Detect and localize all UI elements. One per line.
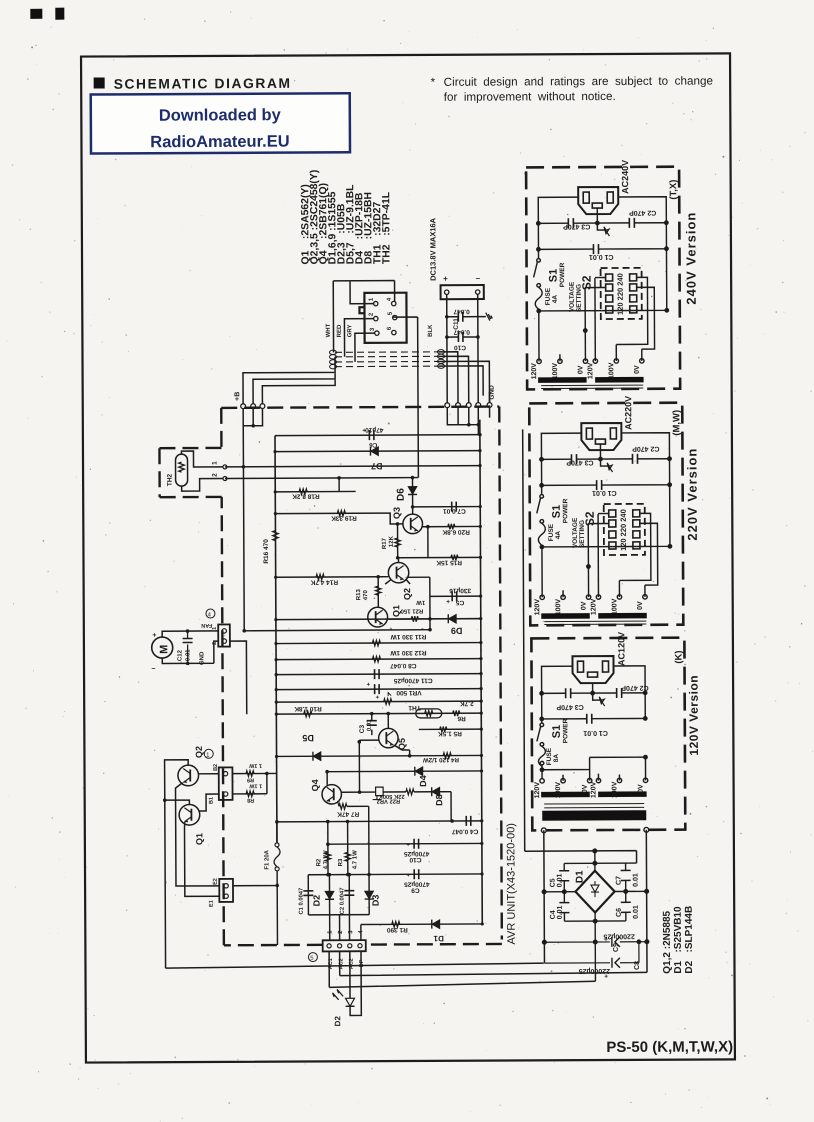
svg-text:0V: 0V	[581, 601, 588, 610]
svg-text:R1 390: R1 390	[386, 926, 407, 933]
Q1 base wire	[199, 794, 219, 811]
svg-text:AVR UNIT(X43-1520-00): AVR UNIT(X43-1520-00)	[505, 823, 518, 945]
svg-text:Circuit design and ratings are: Circuit design and ratings are subject t…	[444, 74, 713, 88]
diode inside	[591, 881, 599, 897]
resistor R1 390 + diode D1	[361, 923, 482, 926]
svg-text:(T,X): (T,X)	[668, 180, 679, 200]
svg-text:4700µ25: 4700µ25	[404, 850, 430, 857]
svg-text:R5 1.5K: R5 1.5K	[438, 730, 462, 737]
svg-text:PS-50 (K,M,T,W,X): PS-50 (K,M,T,W,X)	[606, 1038, 733, 1056]
svg-text:C6: C6	[616, 908, 623, 917]
+B feed pins	[241, 404, 246, 409]
svg-text:R15 15K: R15 15K	[436, 559, 462, 566]
Q1 emitter wire	[184, 822, 219, 896]
svg-text:100V: 100V	[555, 782, 562, 799]
svg-text:R20 6.8K: R20 6.8K	[442, 528, 470, 535]
svg-text:*: *	[431, 76, 436, 89]
svg-text:C5: C5	[550, 878, 557, 887]
svg-text:Q2: Q2	[402, 588, 412, 600]
electrolytics C9 C8	[544, 935, 648, 980]
svg-text:C9: C9	[613, 943, 620, 952]
svg-text:0.01: 0.01	[185, 649, 191, 661]
routing to taps	[542, 757, 646, 770]
svg-text:S1: S1	[551, 725, 563, 739]
resistor R15 15K	[398, 556, 481, 558]
long AC wire 2	[340, 950, 647, 976]
long AC wire 1	[166, 963, 544, 968]
thermistor TH1	[416, 709, 442, 718]
svg-text:GRY: GRY	[347, 324, 353, 337]
svg-text:R19 33K: R19 33K	[331, 514, 357, 521]
svg-text:SCHEMATIC DIAGRAM: SCHEMATIC DIAGRAM	[114, 76, 292, 92]
svg-text:330µ16: 330µ16	[449, 587, 471, 594]
transistor Q1 power	[179, 804, 200, 825]
Q2 emitter wire	[175, 782, 219, 886]
svg-text:–: –	[476, 274, 481, 283]
svg-text:R7 47K: R7 47K	[337, 810, 359, 817]
svg-text:120V: 120V	[531, 363, 538, 380]
fan motor M	[152, 637, 173, 658]
svg-text:Q1,2 :2N5885: Q1,2 :2N5885	[662, 910, 673, 973]
svg-text:120 220 240: 120 220 240	[619, 509, 628, 551]
svg-text:RadioAmateur.EU: RadioAmateur.EU	[150, 133, 289, 152]
svg-text:(K): (K)	[673, 650, 684, 663]
registration marks top left	[30, 8, 64, 20]
svg-text:470: 470	[363, 590, 369, 601]
svg-text:WHT: WHT	[326, 323, 332, 337]
svg-text:1 1W: 1 1W	[248, 783, 262, 789]
svg-text:(M,W): (M,W)	[671, 410, 682, 436]
svg-text:Q4: Q4	[310, 779, 320, 791]
resistor R8 1 1W	[233, 793, 267, 795]
svg-text:C5: C5	[455, 599, 464, 606]
ribbon cable	[335, 351, 439, 354]
svg-text:D1 :S25VB10: D1 :S25VB10	[673, 906, 684, 974]
transistor Q1s	[368, 607, 388, 627]
transistor Q4	[322, 785, 341, 804]
parts list (rotated)	[300, 169, 392, 264]
fuse F1 20A	[275, 843, 279, 847]
svg-text:0V: 0V	[634, 365, 641, 374]
svg-text:1W: 1W	[416, 599, 425, 605]
cap line C3 C2	[542, 692, 645, 695]
svg-text:C8 0.047: C8 0.047	[390, 662, 417, 669]
svg-text:0.01: 0.01	[557, 874, 564, 888]
svg-text:C3: C3	[359, 725, 366, 734]
svg-text:0V: 0V	[582, 784, 589, 793]
inlet wires	[542, 666, 646, 694]
capacitor C8 0.047	[375, 669, 380, 679]
svg-text:C10: C10	[409, 856, 421, 863]
wires from transformer to bridge	[525, 830, 649, 973]
svg-text:C3 470P: C3 470P	[566, 459, 594, 466]
zener D7	[370, 447, 378, 456]
right bus rail	[480, 420, 482, 924]
svg-text:2: 2	[212, 642, 218, 645]
svg-text:R21 150: R21 150	[400, 607, 423, 613]
svg-text:FUSE: FUSE	[548, 523, 555, 541]
svg-text:C4: C4	[550, 910, 557, 919]
svg-text:BLK: BLK	[428, 324, 434, 337]
svg-text:D8: D8	[434, 794, 444, 806]
svg-text:120 220 240: 120 220 240	[616, 273, 625, 315]
svg-text:D7: D7	[371, 461, 383, 471]
fan pin1 to +B vertical	[242, 629, 246, 633]
svg-text:R9: R9	[247, 777, 254, 783]
bridge rectifier D1	[544, 851, 647, 982]
svg-text:FUSE: FUSE	[546, 747, 553, 765]
svg-text:S1: S1	[548, 269, 560, 283]
svg-text:C1 0.01: C1 0.01	[583, 729, 608, 736]
svg-text:1: 1	[212, 461, 219, 465]
resistor R18 8.2K	[299, 489, 307, 495]
svg-text:240V Version: 240V Version	[683, 212, 698, 305]
long DC wire 3	[329, 950, 595, 987]
thermistor TH2	[175, 454, 187, 486]
connector E2/E1	[219, 879, 233, 902]
Q4 base line with trimmer VR2 and diode D8	[341, 791, 375, 793]
transformer bars 120V	[541, 792, 590, 798]
svg-text:4700µ25: 4700µ25	[404, 880, 430, 887]
capacitor C2 0.0047	[348, 875, 350, 915]
svg-text:0V: 0V	[638, 784, 645, 793]
svg-text:R2: R2	[316, 858, 322, 866]
connector 6-pin	[364, 293, 406, 343]
capacitor C3 0.01	[371, 714, 373, 721]
inner loop with caps	[564, 863, 637, 921]
svg-text:C11: C11	[453, 318, 460, 330]
GND pins	[445, 403, 450, 408]
wire R19 line to Q3 base	[275, 513, 403, 525]
svg-text:120V: 120V	[590, 781, 597, 798]
svg-text:0.01: 0.01	[633, 905, 640, 919]
svg-text:R13: R13	[356, 589, 362, 601]
C1 line	[542, 693, 646, 719]
fan supply line	[244, 630, 430, 631]
svg-text:E1: E1	[209, 900, 215, 907]
svg-text:4A: 4A	[555, 531, 562, 540]
resistor R16 470	[273, 531, 279, 541]
svg-text:C2 470P: C2 470P	[632, 445, 660, 452]
svg-text:0V: 0V	[637, 601, 644, 610]
outer border frame	[81, 53, 735, 1062]
capacitor C1 0.0047	[307, 875, 309, 915]
svg-text:+: +	[446, 599, 450, 606]
diamond	[575, 871, 614, 913]
resistor R4 120 1/2W	[443, 753, 451, 759]
220V version box	[529, 396, 683, 626]
svg-text:1 1W: 1 1W	[248, 762, 262, 768]
svg-text:D2 :SLP144B: D2 :SLP144B	[684, 906, 695, 974]
svg-text:C10: C10	[454, 344, 466, 351]
svg-text:POWER: POWER	[559, 262, 566, 287]
svg-text:Q1: Q1	[391, 605, 401, 617]
left bus rail	[275, 436, 277, 843]
center pin to chassis ground	[593, 683, 601, 700]
svg-text:0.01: 0.01	[367, 719, 373, 731]
diode D5	[313, 752, 321, 761]
svg-text:4.7 1W: 4.7 1W	[352, 850, 358, 869]
svg-text:4.7 1W: 4.7 1W	[323, 850, 329, 869]
svg-text:AC240V: AC240V	[620, 160, 630, 194]
svg-text:D1: D1	[433, 934, 444, 943]
svg-text:+B: +B	[234, 392, 241, 401]
svg-text:–: –	[152, 665, 156, 672]
svg-text:D9: D9	[451, 626, 463, 636]
transistor Q2 power	[178, 765, 199, 786]
svg-text:0V: 0V	[577, 365, 584, 374]
resistor R9 1 1W	[232, 772, 276, 774]
LED D2	[349, 951, 351, 998]
svg-text:DC13.8V MAX16A: DC13.8V MAX16A	[428, 217, 437, 281]
resistor R11 330 1W	[372, 640, 380, 646]
fuse 8A	[538, 746, 545, 766]
svg-text:120V: 120V	[534, 782, 541, 799]
resistor R12 330 1W	[372, 656, 380, 662]
electrolytic C11 4700u25	[375, 684, 380, 694]
svg-text:+: +	[406, 842, 410, 848]
Q1 collector wire	[165, 800, 190, 805]
fan connector	[218, 624, 230, 646]
svg-text:100V: 100V	[552, 363, 559, 380]
svg-text:TH1: TH1	[408, 704, 421, 711]
electrolytic C9 4700u25	[308, 873, 482, 876]
svg-text:M: M	[158, 645, 170, 654]
electrolytic C10 4700u25	[328, 842, 482, 845]
transistor Q5	[379, 728, 398, 747]
svg-text:SETTING: SETTING	[579, 520, 586, 548]
wire TH2-2 line	[225, 477, 418, 480]
svg-text:B1: B1	[209, 797, 215, 804]
svg-text:2.7K: 2.7K	[460, 700, 474, 707]
potentiometer VR1 500	[384, 699, 392, 705]
svg-text:C2 470P: C2 470P	[621, 684, 649, 691]
connector 4-pin AC	[323, 940, 366, 951]
svg-text:C1 0.0047: C1 0.0047	[299, 888, 305, 915]
svg-text:C2 0.0047: C2 0.0047	[340, 888, 346, 915]
svg-text:100V: 100V	[608, 362, 615, 379]
svg-text:+: +	[407, 873, 411, 879]
svg-text:+: +	[376, 695, 380, 701]
svg-text:120V: 120V	[587, 362, 594, 379]
svg-text:100V: 100V	[611, 598, 618, 615]
svg-text:POWER: POWER	[562, 498, 569, 523]
bus lines	[275, 435, 480, 436]
secondary bar	[542, 810, 646, 821]
capacitor C4 0.047	[277, 821, 482, 822]
svg-text:C12: C12	[177, 649, 183, 661]
resistor R21 150 1W	[388, 618, 412, 620]
svg-text:F1 20A: F1 20A	[264, 849, 270, 869]
capacitor C12 0.01	[187, 631, 189, 663]
electrolytic C5 330u16	[430, 595, 481, 597]
Q2 collector wire	[165, 760, 190, 968]
transistor Q3	[403, 514, 423, 534]
svg-text:100V: 100V	[555, 599, 562, 616]
bottom tie line	[308, 914, 369, 916]
svg-text:C11 4700µ25: C11 4700µ25	[393, 677, 432, 684]
output terminals on border	[541, 828, 546, 833]
svg-text:GND: GND	[199, 651, 205, 665]
svg-text:R4 120 1/2W: R4 120 1/2W	[423, 756, 459, 763]
svg-text:S1: S1	[551, 505, 563, 519]
svg-text:R14 4.7K: R14 4.7K	[310, 578, 338, 585]
svg-text:C7 0.01: C7 0.01	[443, 507, 466, 514]
svg-text:D5: D5	[302, 733, 314, 743]
svg-text:C3 470P: C3 470P	[556, 703, 584, 710]
resistor R19 33K	[337, 511, 345, 517]
AC inlet 120V	[572, 656, 613, 683]
svg-text:VR1 500: VR1 500	[396, 689, 422, 696]
svg-text:C2 470P: C2 470P	[629, 209, 657, 216]
svg-text:+: +	[152, 632, 156, 639]
title: SCHEMATIC DIAGRAM	[94, 76, 292, 92]
svg-text:120V: 120V	[590, 598, 597, 615]
resistor R13 470	[377, 577, 379, 607]
harness to +B pins	[243, 357, 335, 404]
harness to GND pins	[439, 352, 490, 403]
svg-text:R12 330 1W: R12 330 1W	[389, 649, 426, 656]
svg-text:+: +	[367, 682, 371, 688]
120V version box	[531, 632, 685, 833]
taps	[540, 779, 544, 783]
svg-text:D6: D6	[396, 488, 407, 501]
capacitor C10 0.047	[447, 336, 458, 338]
resistor R7 47K	[338, 801, 339, 807]
svg-text:D4: D4	[418, 775, 428, 787]
DC output terminal block	[441, 285, 484, 299]
svg-text:FAN: FAN	[201, 622, 212, 628]
svg-text:R8: R8	[247, 797, 254, 803]
wire to bridge DC line	[523, 429, 525, 851]
svg-text:R6: R6	[457, 715, 466, 722]
svg-text:Q3: Q3	[392, 507, 402, 519]
svg-text:R11 330 1W: R11 330 1W	[390, 633, 427, 640]
svg-text:C4 0.047: C4 0.047	[452, 828, 479, 835]
dashed border 120V	[531, 638, 685, 831]
svg-text:R17: R17	[382, 537, 388, 549]
right AC rail	[645, 830, 648, 973]
Q5 base riser	[359, 739, 378, 741]
left AC rail	[543, 830, 546, 963]
svg-text:D2: D2	[333, 1016, 342, 1027]
svg-text:C8: C8	[634, 961, 641, 970]
svg-text:0.01: 0.01	[633, 873, 640, 887]
electrolytic C6 47u10	[369, 430, 374, 440]
svg-text:Downloaded by: Downloaded by	[159, 106, 282, 125]
diode D3	[368, 874, 370, 914]
svg-text:E2: E2	[213, 878, 219, 885]
svg-text:D2: D2	[312, 895, 322, 907]
svg-text:120V Version: 120V Version	[687, 675, 701, 756]
240V version box	[526, 160, 680, 390]
svg-text:D1: D1	[575, 870, 586, 883]
svg-text:C1 0.01: C1 0.01	[592, 489, 617, 496]
resistor R20 6.8K	[423, 525, 481, 527]
resistor R3 4.7 1W	[347, 821, 349, 874]
svg-text:C7: C7	[616, 876, 623, 885]
S1 switch	[541, 719, 543, 723]
svg-text:R10 1.8K: R10 1.8K	[294, 705, 322, 712]
svg-text:8A: 8A	[553, 754, 560, 763]
svg-text:C9: C9	[411, 886, 420, 893]
bottom parts list (rotated)	[662, 906, 695, 974]
svg-text:220V Version: 220V Version	[684, 448, 699, 541]
DC plus top wire	[525, 851, 637, 864]
diode D6	[411, 477, 413, 514]
resistor R2 4.7 1W	[327, 822, 329, 875]
svg-text:RED: RED	[337, 324, 343, 337]
resistor R14 4.7K	[276, 576, 389, 579]
capacitor C7 0.01	[413, 506, 481, 508]
svg-text:47µ10: 47µ10	[365, 426, 384, 433]
svg-text:22000µ25: 22000µ25	[603, 932, 634, 939]
svg-text:SETTING: SETTING	[576, 284, 583, 312]
resistor R6 2.7K	[453, 710, 460, 716]
svg-text:0.01: 0.01	[557, 906, 564, 920]
svg-text:1: 1	[212, 627, 218, 630]
svg-text:FUSE: FUSE	[545, 287, 552, 305]
svg-text:R18 8.2K: R18 8.2K	[292, 492, 320, 499]
wire D4 line	[327, 770, 481, 773]
diode D9	[448, 614, 456, 623]
resistor R5 1.5K	[419, 728, 481, 730]
capacitor C11 0.047	[447, 294, 478, 337]
corner stubs	[544, 890, 646, 893]
svg-text:Q1: Q1	[194, 833, 204, 845]
connector B2/B1	[219, 767, 233, 800]
svg-text:Q2: Q2	[194, 746, 204, 758]
wire R18 line	[275, 490, 355, 492]
fan pin2 ground wire	[230, 641, 247, 714]
AVR unit dashed border	[159, 407, 502, 946]
wires from top pins down	[243, 426, 244, 631]
svg-text:2: 2	[212, 473, 219, 477]
svg-text:POWER: POWER	[562, 718, 569, 743]
svg-text:C1 0.01: C1 0.01	[589, 253, 614, 260]
svg-text:0.047: 0.047	[453, 308, 470, 315]
svg-text:R22 VR2: R22 VR2	[377, 798, 401, 804]
downloaded-by box	[91, 93, 350, 153]
svg-text:TH2: TH2	[167, 473, 174, 486]
Q5 emitter to D5 line	[395, 745, 410, 755]
svg-text:TH2 :5TP-41L: TH2 :5TP-41L	[381, 191, 392, 264]
resistor R10 1.8K	[304, 711, 312, 717]
svg-text:100V: 100V	[611, 781, 618, 798]
svg-text:B2: B2	[213, 764, 219, 771]
svg-text:0.047: 0.047	[453, 328, 470, 335]
svg-text:AC220V: AC220V	[623, 396, 633, 430]
note top right	[431, 74, 713, 103]
Q2 base wire	[198, 773, 219, 775]
svg-text:C3 470P: C3 470P	[563, 223, 591, 230]
svg-text:12K: 12K	[389, 535, 395, 547]
svg-text:AC120V: AC120V	[616, 632, 626, 666]
connector harness wires	[333, 281, 394, 304]
svg-text:R16 470: R16 470	[263, 539, 270, 564]
diode D4	[415, 767, 423, 776]
transistor Q2s	[388, 562, 408, 582]
svg-text:+: +	[362, 428, 366, 434]
svg-text:R3: R3	[338, 858, 344, 866]
svg-text:D3: D3	[371, 895, 381, 907]
svg-text:120V: 120V	[534, 599, 541, 616]
svg-text:for improvement without notice: for improvement without notice.	[444, 90, 616, 104]
LED drive D2	[329, 915, 331, 940]
resistor R17 12K	[397, 524, 399, 558]
svg-text:4A: 4A	[552, 295, 559, 304]
svg-text:+: +	[443, 274, 448, 283]
